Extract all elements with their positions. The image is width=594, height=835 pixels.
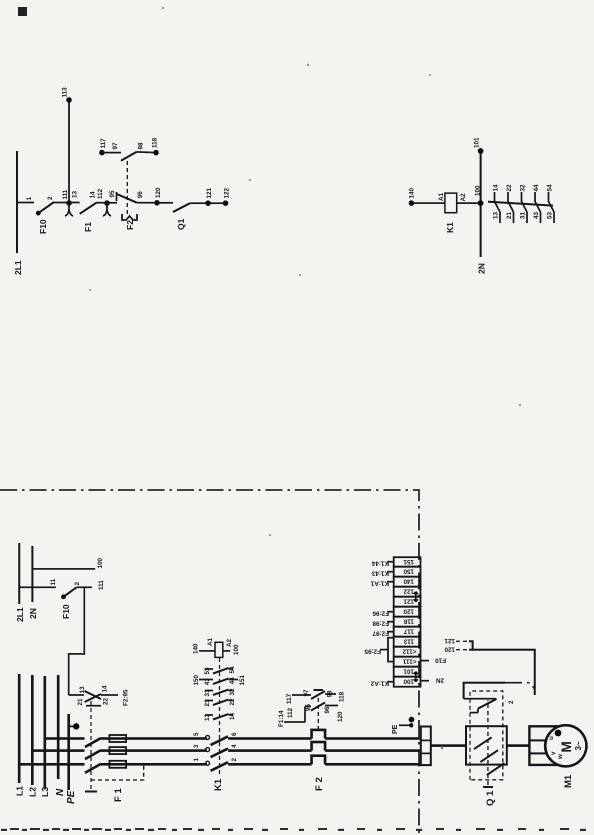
svg-text:100: 100: [233, 644, 240, 655]
wire 14 out: [101, 694, 118, 696]
svg-text:1: 1: [26, 197, 33, 201]
svg-text:F2:95: F2:95: [123, 689, 130, 706]
field wires 120 121 to Q1 aux: [444, 637, 535, 695]
svg-text:121: 121: [403, 598, 414, 605]
svg-text:113: 113: [62, 87, 69, 98]
svg-text:K1:A1: K1:A1: [370, 580, 389, 587]
node 122: [223, 200, 229, 206]
contactor K1 pole 3: [206, 736, 210, 740]
svg-text:2: 2: [508, 700, 515, 704]
mirror contact 31-32: [520, 184, 528, 223]
dashed stub 121: [456, 640, 469, 642]
control rail 2N (power side): [31, 546, 33, 602]
svg-text:L3: L3: [40, 787, 50, 797]
cabinet boundary dash-dot frame: [0, 490, 419, 835]
svg-text:97: 97: [303, 689, 310, 697]
Q1 mech link dashed: [487, 700, 489, 785]
svg-text:2N: 2N: [435, 677, 444, 684]
svg-text:22: 22: [506, 184, 513, 192]
svg-text:F2:98: F2:98: [372, 620, 389, 627]
fuse F1 pole1: [101, 763, 207, 766]
Q1 blade 2: [480, 750, 498, 762]
jumper 100-101: [414, 672, 418, 682]
strip exit wire 2N: [421, 680, 430, 682]
svg-text:140: 140: [403, 578, 414, 585]
svg-text:98: 98: [327, 690, 334, 698]
svg-text:4: 4: [231, 744, 238, 748]
K1 contact mirror link: [488, 202, 553, 206]
jumper 121-122: [414, 592, 418, 602]
svg-text:113: 113: [403, 638, 414, 645]
svg-text:13: 13: [204, 713, 211, 721]
K1 aux contact 43-44 with wires 150 151: [193, 674, 246, 685]
bus L3: [43, 676, 46, 788]
svg-text:95: 95: [109, 190, 116, 198]
F1 aux wire from control: [69, 694, 84, 696]
svg-text:F10: F10: [61, 604, 71, 619]
wire tick node 1: [17, 202, 34, 204]
Q1 contact box: [466, 726, 507, 764]
svg-text:117: 117: [403, 628, 414, 635]
branch wire to 113: [68, 100, 70, 203]
svg-text:M1: M1: [563, 774, 574, 788]
F1 mechanical link dashed: [90, 698, 92, 789]
svg-text:F1: F1: [83, 222, 93, 232]
svg-text:97: 97: [112, 142, 119, 150]
K1 mechanical link dashed: [219, 657, 221, 774]
svg-text:151: 151: [403, 558, 414, 565]
svg-text:F 1: F 1: [113, 788, 124, 802]
svg-text:53: 53: [547, 211, 554, 219]
svg-text:2N: 2N: [477, 263, 487, 274]
fuse F1 pole3: [101, 737, 207, 740]
svg-text:5: 5: [193, 732, 200, 736]
mirror contact 43-44: [533, 184, 541, 223]
node 111 junction: [66, 200, 72, 206]
svg-text:L1: L1: [15, 786, 25, 796]
F1 aux contact NC 21-22: [85, 694, 102, 702]
svg-text:118: 118: [152, 137, 159, 148]
fuse F1 pole2: [101, 749, 207, 752]
connector box at cabinet exit: [421, 727, 431, 766]
bus N: [57, 675, 60, 779]
svg-text:44: 44: [533, 184, 540, 192]
contact F2 97-98 (NO): [121, 152, 137, 161]
svg-text:13: 13: [493, 211, 500, 219]
svg-text:117: 117: [100, 138, 107, 149]
node 117: [99, 150, 105, 156]
contact F2 95-96 (NC): [107, 202, 117, 204]
svg-text:PE: PE: [392, 724, 399, 734]
F1 aux contact NO 13-14: [85, 691, 102, 699]
svg-text:111: 111: [98, 580, 105, 590]
svg-text:A2: A2: [460, 193, 467, 202]
K1 aux contact 53-54: [204, 666, 236, 675]
svg-text:1: 1: [193, 758, 200, 762]
dashed stub 120: [456, 649, 469, 651]
svg-text:u: u: [548, 736, 555, 740]
svg-text:13: 13: [79, 686, 86, 694]
svg-text:100: 100: [97, 557, 104, 568]
svg-text:122: 122: [224, 187, 231, 198]
svg-text:44: 44: [229, 677, 236, 685]
svg-text:120: 120: [444, 646, 455, 653]
Q1 aux contact: [470, 712, 478, 714]
svg-text:140: 140: [409, 187, 416, 198]
node 120: [154, 200, 160, 206]
svg-text:3: 3: [193, 744, 200, 748]
node 101: [478, 148, 484, 154]
svg-text:13: 13: [72, 190, 79, 198]
bracket joining: [469, 641, 535, 695]
svg-text:22: 22: [229, 698, 236, 706]
svg-text:F2:96: F2:96: [372, 610, 389, 617]
svg-text:140: 140: [193, 643, 200, 654]
K1 aux contact 21-22: [204, 698, 236, 707]
wire 100 from 2N: [32, 568, 95, 570]
svg-text:101: 101: [403, 668, 414, 675]
svg-text:11: 11: [50, 578, 57, 585]
svg-text:121: 121: [206, 187, 213, 198]
svg-text:M: M: [559, 741, 574, 752]
fuse-switch F10 (power side): [61, 594, 66, 599]
node 100 junction: [478, 200, 484, 206]
cable to Q1: [431, 744, 466, 747]
svg-text:98: 98: [138, 142, 145, 150]
svg-text:54: 54: [547, 184, 554, 192]
svg-text:F2: F2: [125, 220, 135, 230]
F2 aux contact 97-98: [311, 691, 325, 699]
svg-text:32: 32: [229, 688, 236, 696]
svg-text:43: 43: [533, 211, 540, 219]
terminal strip X: [364, 557, 446, 687]
svg-text:K1:43: K1:43: [371, 570, 389, 577]
phase drop L3: [45, 737, 85, 740]
svg-text:96: 96: [324, 706, 331, 714]
svg-text:120: 120: [403, 608, 414, 615]
svg-text:120: 120: [155, 187, 162, 198]
isolator Q1: [464, 683, 535, 806]
wire 98-118: [137, 151, 157, 154]
svg-text:118: 118: [403, 618, 414, 625]
F2 trip link dashed: [317, 694, 319, 730]
svg-text:K1:44: K1:44: [371, 560, 389, 567]
svg-text:53: 53: [204, 667, 211, 675]
wire Q1-121-122: [190, 202, 226, 204]
wire 117-97: [102, 152, 121, 154]
bus L1: [18, 674, 21, 783]
svg-text:A1: A1: [438, 192, 445, 201]
F2 trip T-bar: [314, 689, 324, 691]
wire tap 11: [19, 586, 56, 588]
svg-text:PE: PE: [66, 790, 77, 804]
wire 96-120: [137, 202, 157, 204]
plug fork at 112: [103, 204, 111, 216]
mirror contact 13-14: [493, 184, 501, 223]
svg-text:14: 14: [89, 191, 96, 199]
svg-text:F2:97: F2:97: [372, 630, 389, 637]
strip outline boxes: [394, 557, 421, 687]
svg-text:2: 2: [231, 758, 238, 762]
svg-text:<112: <112: [402, 648, 416, 655]
svg-text:Q1: Q1: [176, 218, 186, 230]
aux leg: [86, 705, 101, 707]
svg-text:150: 150: [403, 568, 414, 575]
switch F1 pole 1 blade: [85, 764, 101, 773]
mirror contact 21-22: [506, 184, 514, 223]
contact F1 (NO): [69, 202, 80, 204]
svg-text:3~: 3~: [574, 741, 583, 750]
F1 handle bar: [85, 791, 97, 793]
overload release paddle: [122, 214, 137, 220]
svg-text:120: 120: [337, 711, 344, 722]
node 140: [409, 200, 415, 206]
mirror contact 53-54: [547, 184, 555, 223]
svg-text:31: 31: [520, 211, 527, 219]
F2 aux contact 95-96: [305, 705, 311, 707]
contactor K1 pole 1: [206, 761, 210, 765]
switch F1 pole 3 blade: [85, 738, 101, 747]
svg-text:2L1: 2L1: [15, 607, 25, 622]
bus 2N (control): [480, 151, 482, 257]
svg-text:14: 14: [102, 685, 109, 693]
motor terminal box: [529, 726, 557, 765]
bus L2: [31, 675, 34, 785]
svg-text:112: 112: [97, 188, 104, 199]
Q1 blade 1: [474, 737, 492, 749]
F1 link drop dashed: [91, 763, 144, 780]
svg-text:N: N: [55, 788, 66, 796]
Q1 blade 3: [487, 763, 505, 775]
node 118: [153, 150, 159, 156]
switch F1 pole 2 blade: [85, 750, 101, 759]
Q1 handle T-bar: [483, 786, 493, 788]
contact Q1 (isolator aux): [157, 202, 173, 204]
thermal overload F2 heater pole3: [312, 730, 326, 739]
svg-text:K1: K1: [213, 778, 224, 791]
motor M1: [529, 725, 586, 788]
svg-text:K1:A2: K1:A2: [370, 680, 389, 687]
svg-text:31: 31: [204, 689, 211, 697]
svg-text:2L1: 2L1: [13, 260, 23, 275]
fuse-switch F10: [36, 211, 41, 216]
svg-text:122: 122: [403, 588, 414, 595]
strip exit wire F10: [421, 660, 430, 662]
svg-text:117: 117: [286, 693, 293, 704]
svg-text:F 2: F 2: [314, 777, 325, 791]
svg-text:F10: F10: [435, 657, 446, 664]
Q1 aux loop: [464, 683, 505, 699]
K1 aux contact 13-14: [204, 712, 236, 721]
bus 2L1 (control): [16, 151, 18, 253]
svg-text:L2: L2: [28, 787, 38, 797]
svg-text:v: v: [550, 751, 557, 755]
phase drop L2: [32, 749, 84, 752]
svg-text:111: 111: [62, 189, 69, 199]
svg-text:21: 21: [506, 211, 513, 219]
svg-text:F1:14: F1:14: [278, 710, 285, 727]
bus PE: [67, 714, 70, 790]
svg-text:112: 112: [287, 707, 294, 718]
thermal overload F2 heater pole2: [312, 742, 326, 751]
control rail 2L1 (power side): [18, 543, 20, 604]
svg-text:118: 118: [339, 691, 346, 702]
svg-text:101: 101: [474, 137, 481, 148]
svg-text:22: 22: [103, 697, 110, 705]
svg-text:21: 21: [77, 698, 84, 706]
svg-text:A1: A1: [207, 637, 214, 646]
plug fork at 13: [65, 204, 73, 216]
svg-text:150: 150: [193, 674, 200, 685]
svg-text:54: 54: [229, 666, 236, 674]
Q1 dashed enclosure: [470, 691, 503, 780]
phase drop L1: [19, 763, 84, 766]
svg-text:2N: 2N: [28, 608, 38, 619]
coil K1: [445, 193, 457, 213]
svg-text:F2:95: F2:95: [364, 648, 381, 655]
svg-text:2: 2: [74, 582, 81, 586]
wire A2-100: [457, 202, 481, 204]
motor body: [545, 725, 586, 766]
stray specks: [89, 7, 521, 749]
contactor K1 pole 2: [206, 748, 210, 752]
thermal overload F2 heater pole1: [312, 756, 326, 765]
svg-text:14: 14: [229, 712, 236, 720]
corner blob: [18, 7, 27, 16]
node 121: [205, 200, 211, 206]
overload trip link (dashed): [126, 161, 128, 214]
wire staircase to F1 aux: [69, 587, 85, 695]
cable to motor: [507, 744, 531, 747]
svg-text:96: 96: [137, 191, 144, 199]
K1 aux contact 31-32: [204, 688, 236, 697]
svg-text:43: 43: [204, 678, 211, 686]
svg-text:F10: F10: [38, 219, 48, 234]
svg-text:21: 21: [204, 699, 211, 707]
PE tap with terminal dot: [69, 725, 75, 727]
svg-text:100: 100: [403, 678, 414, 685]
K1 coil (power): [199, 650, 215, 652]
scan edge speckles: [1, 828, 586, 831]
svg-text:14: 14: [493, 184, 500, 192]
svg-text:K1: K1: [445, 222, 455, 233]
node 112 junction: [96, 202, 107, 204]
wire 2-111: [53, 202, 69, 204]
motor PE terminal dot: [555, 730, 562, 737]
svg-text:32: 32: [520, 184, 527, 192]
svg-text:151: 151: [239, 674, 246, 685]
svg-text:2: 2: [47, 196, 54, 200]
svg-text:121: 121: [444, 637, 455, 644]
svg-text:Q 1: Q 1: [485, 790, 496, 806]
node 113: [66, 97, 72, 103]
wire 111: [77, 586, 92, 588]
svg-text:A2: A2: [226, 638, 233, 647]
wire 140-A1: [411, 202, 445, 204]
svg-text:6: 6: [231, 732, 238, 736]
svg-text:<111: <111: [403, 658, 417, 665]
